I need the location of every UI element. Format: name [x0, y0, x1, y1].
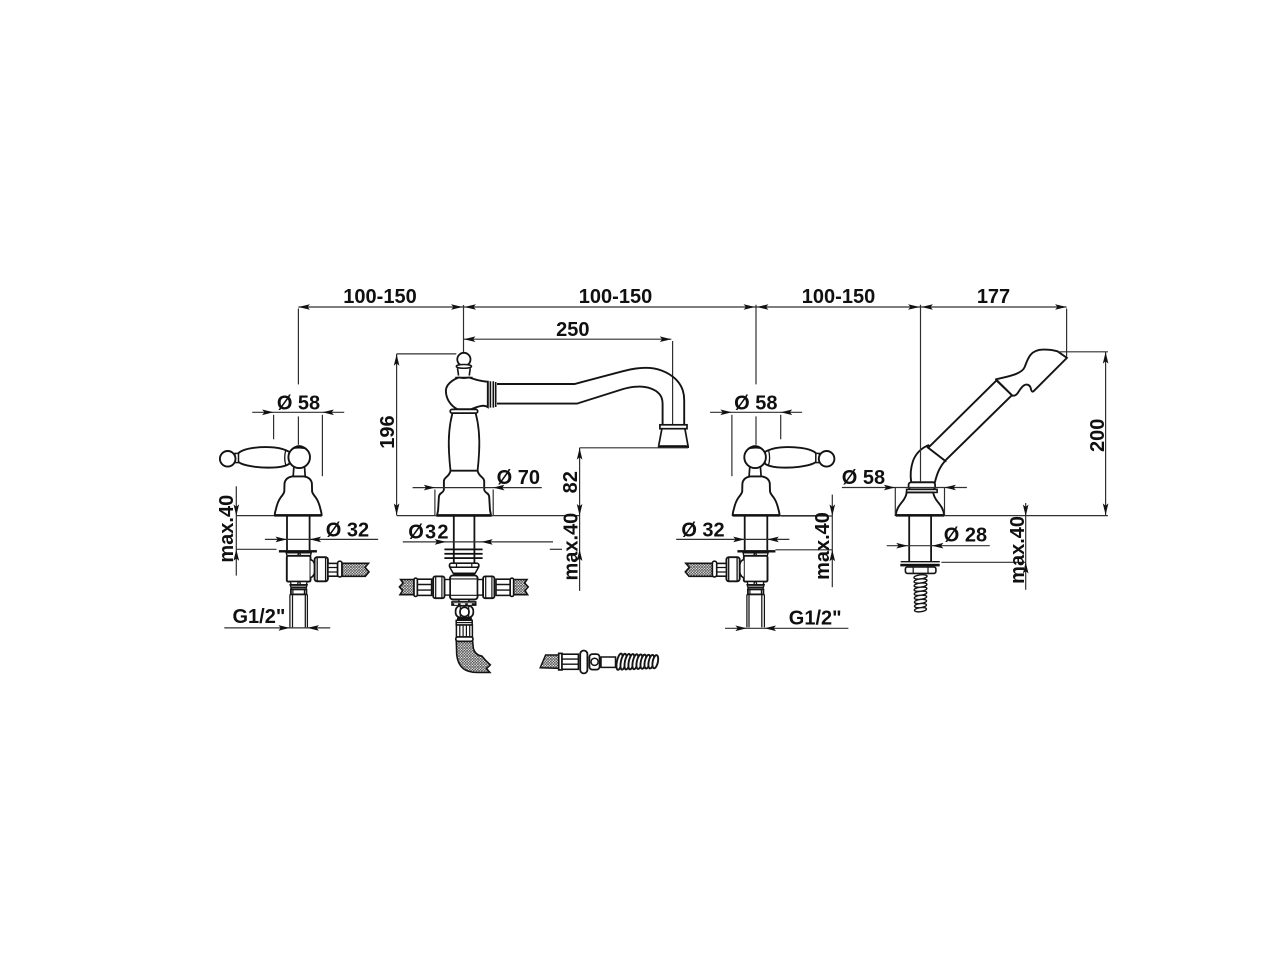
- handshower shaft: [909, 516, 931, 561]
- lever ferrule right: [769, 450, 770, 465]
- spout column: [449, 413, 480, 470]
- dimension D32 right valve: [676, 520, 789, 543]
- lever pivot ball right: [744, 447, 766, 469]
- locknut left: [286, 553, 311, 556]
- mixer block lines: [450, 579, 477, 595]
- handshower handle cone: [928, 380, 1012, 460]
- spout washer line 2: [444, 553, 482, 555]
- deck reference line right: [780, 515, 818, 517]
- handshower head: [996, 350, 1067, 396]
- lever ball cap left: [291, 445, 308, 450]
- shower hose protection spring: [615, 653, 659, 670]
- mixer right braided hose: [514, 580, 529, 595]
- valve escutcheon bell left: [275, 476, 322, 515]
- deck reference line spout left: [397, 515, 436, 517]
- deck reference line left: [236, 515, 274, 517]
- threaded cone left: [290, 585, 307, 589]
- svg-text:G1/2": G1/2": [232, 606, 285, 628]
- dimension label 100-150 first: [343, 286, 416, 308]
- dimension D32 left valve: [265, 520, 378, 543]
- mixer curved braided hose: [456, 641, 490, 672]
- mixer cross block: [450, 575, 478, 599]
- mounting flange right: [737, 550, 775, 552]
- tailpiece nut left: [291, 589, 307, 594]
- dimension D28 handshower: [887, 525, 990, 549]
- valve shaft left: [287, 516, 310, 550]
- svg-text:82: 82: [560, 471, 582, 493]
- svg-text:200: 200: [1087, 419, 1109, 452]
- spout washer line 3: [444, 557, 482, 559]
- extension line right valve centerline: [755, 305, 757, 445]
- spout body: [446, 378, 488, 410]
- spout taper: [450, 567, 479, 573]
- mixer right coupling ring: [510, 578, 514, 596]
- bell base line left: [274, 514, 322, 516]
- G1/2 tailpipe left: [290, 594, 308, 627]
- hose adapter ribs right: [717, 568, 726, 573]
- svg-text:max.40: max.40: [216, 495, 238, 563]
- tailpiece nut right: [748, 589, 764, 594]
- valve stem right: [749, 468, 761, 477]
- lever pivot ball left: [288, 447, 310, 469]
- lever ball cap right: [747, 445, 764, 450]
- valve escutcheon bell right: [733, 476, 780, 515]
- mixer left neck: [445, 580, 451, 596]
- mixer hose coupling: [456, 625, 472, 637]
- handshower holder ledge: [907, 489, 938, 492]
- hose adapter ribs left: [328, 568, 337, 573]
- mixer left coupling bands: [418, 585, 432, 591]
- svg-text:Ø32: Ø32: [408, 521, 449, 543]
- braided supply hose right: [685, 563, 712, 576]
- spout arm collar: [488, 381, 496, 407]
- mixer left coupling: [417, 579, 431, 595]
- tailpiece nut facets right: [750, 590, 762, 595]
- bell base line right: [733, 514, 781, 516]
- lever ferrule left: [285, 450, 286, 465]
- handshower joint line 1: [926, 446, 947, 462]
- spout outlet flange: [660, 425, 687, 429]
- handshower bell base line: [896, 514, 945, 516]
- mixer rings: [456, 620, 472, 625]
- svg-text:Ø 70: Ø 70: [497, 467, 540, 489]
- mixer right neck: [478, 580, 484, 596]
- dimension D58 left valve: [252, 392, 344, 476]
- hose adapter left: [328, 563, 338, 576]
- handshower elbow: [911, 445, 945, 482]
- valve lever grip right: [765, 447, 817, 467]
- svg-text:Ø 32: Ø 32: [326, 520, 369, 542]
- body step rings left: [290, 582, 307, 585]
- mixer ball nut facets: [460, 606, 468, 617]
- dimension chain line (hole spacing): [298, 304, 1066, 310]
- spout threaded shaft: [454, 516, 475, 563]
- dimension max.40 spout: [550, 513, 583, 581]
- svg-text:Ø 28: Ø 28: [944, 525, 987, 547]
- dimension D70 spout base: [413, 467, 542, 515]
- side port boss right: [739, 560, 744, 578]
- dimension label 100-150 second: [579, 286, 652, 308]
- mixer bottom flange: [452, 602, 476, 605]
- valve body left: [287, 556, 311, 582]
- mixer left nut facets: [436, 577, 442, 598]
- lever neck left: [235, 453, 239, 462]
- spout dark band: [453, 573, 475, 575]
- mixer right coupling bands: [496, 585, 510, 591]
- side port nut right: [726, 557, 739, 581]
- shower hose swivel: [589, 654, 599, 670]
- svg-text:max.40: max.40: [1007, 516, 1029, 584]
- handshower fixing screw: [914, 574, 928, 612]
- handshower nut: [905, 567, 936, 573]
- spout finial neck: [458, 368, 471, 375]
- lever tip ball right: [819, 451, 835, 467]
- svg-text:Ø 32: Ø 32: [681, 520, 724, 542]
- dimension D58 right valve: [710, 392, 802, 476]
- dimension label 100-150 third: [802, 286, 875, 308]
- handshower washer top: [901, 561, 940, 563]
- braided supply hose left: [342, 563, 369, 576]
- handshower nut facets: [913, 567, 928, 573]
- spout finial bead: [456, 365, 471, 369]
- mixer left braided hose: [399, 580, 414, 595]
- deck reference line spout right: [492, 515, 580, 517]
- mixer right nut: [483, 576, 494, 598]
- mixer right nut facets: [486, 577, 492, 598]
- dimension max.40 right valve: [775, 495, 835, 588]
- threaded cone right: [747, 585, 764, 589]
- spout column base ring: [450, 409, 478, 413]
- locknut right: [743, 553, 768, 556]
- dimension G1/2 left valve: [224, 606, 330, 631]
- mixer left coupling ring: [414, 578, 418, 596]
- spout washer line 1: [444, 549, 482, 551]
- dimension D32 spout shaft: [403, 521, 553, 544]
- valve lever grip left: [238, 447, 290, 467]
- svg-text:100-150: 100-150: [579, 286, 652, 308]
- spout shaft nut ends: [457, 563, 472, 567]
- dimension 200 handshower height: [1058, 352, 1109, 515]
- shower hose braided section: [540, 655, 559, 668]
- tailpiece nut facets left: [293, 590, 305, 595]
- svg-text:100-150: 100-150: [343, 286, 416, 308]
- valve shaft right: [745, 516, 768, 550]
- svg-text:Ø 58: Ø 58: [734, 392, 777, 414]
- spout neck base line: [455, 376, 472, 378]
- hose adapter right: [717, 563, 727, 576]
- svg-text:196: 196: [377, 415, 399, 448]
- valve stem left: [293, 468, 305, 477]
- shower hose coupling bands: [562, 659, 578, 664]
- side port nut facets left: [317, 557, 325, 581]
- shower hose coupling: [562, 654, 578, 669]
- mounting flange left: [279, 550, 317, 552]
- extension line left valve centerline: [297, 309, 299, 445]
- lever tip ball left: [220, 451, 236, 467]
- body step rings right: [747, 582, 764, 585]
- extension line handshower head right: [1066, 309, 1068, 357]
- handshower holder cap: [909, 482, 936, 489]
- mixer bottom neck: [459, 600, 469, 602]
- shower hose ring: [580, 651, 587, 674]
- side port nut facets right: [729, 557, 737, 581]
- mixer band: [457, 618, 472, 620]
- dimension G1/2 right valve: [725, 608, 848, 632]
- dimension 250 spout reach: [464, 319, 673, 425]
- svg-text:Ø 58: Ø 58: [277, 392, 320, 414]
- shower hose collar bar: [559, 653, 562, 670]
- extension line handshower centerline: [920, 305, 922, 440]
- mixer left nut: [433, 576, 444, 598]
- spout ball finial: [457, 353, 470, 366]
- lever neck right: [816, 453, 820, 462]
- spout bell base line: [436, 514, 491, 516]
- side port boss left: [311, 560, 316, 578]
- hose collar ring left: [338, 561, 342, 577]
- handshower washer band: [900, 564, 939, 567]
- side port nut left: [315, 557, 328, 581]
- spout outlet cup: [659, 429, 688, 446]
- dimension D58 handshower: [842, 467, 967, 515]
- spout arm tube: [497, 368, 684, 425]
- spout shaft nut: [449, 563, 479, 567]
- dimension 82 outlet height: [560, 448, 688, 591]
- dimension label 177: [977, 286, 1010, 308]
- valve body right: [744, 556, 768, 582]
- handshower joint line 2: [996, 379, 1014, 396]
- svg-text:250: 250: [556, 319, 589, 341]
- handshower holder bell: [896, 492, 945, 515]
- handshower centerline overlay: [920, 440, 922, 482]
- G1/2 tailpipe right: [747, 594, 765, 627]
- hose collar ring right: [712, 561, 716, 577]
- shower hose nipple: [601, 657, 616, 667]
- svg-text:max.40: max.40: [560, 513, 582, 581]
- mixer hose collar: [456, 637, 473, 641]
- dimension max.40 left valve: [216, 486, 277, 575]
- mixer ball nut: [456, 606, 474, 618]
- svg-text:177: 177: [977, 286, 1010, 308]
- svg-text:G1/2": G1/2": [789, 608, 842, 630]
- mixer right coupling: [496, 579, 510, 595]
- deck reference line shower right: [944, 515, 1108, 517]
- svg-text:max.40: max.40: [812, 512, 834, 580]
- svg-text:Ø 58: Ø 58: [842, 467, 885, 489]
- extension line spout centerline: [463, 305, 465, 354]
- dimension max.40 handshower: [941, 503, 1029, 590]
- spout outlet mouth: [658, 445, 689, 448]
- dimension 196 spout height: [377, 354, 457, 515]
- spout base bell: [437, 471, 491, 516]
- svg-text:100-150: 100-150: [802, 286, 875, 308]
- mixer ball nut circle: [460, 607, 469, 616]
